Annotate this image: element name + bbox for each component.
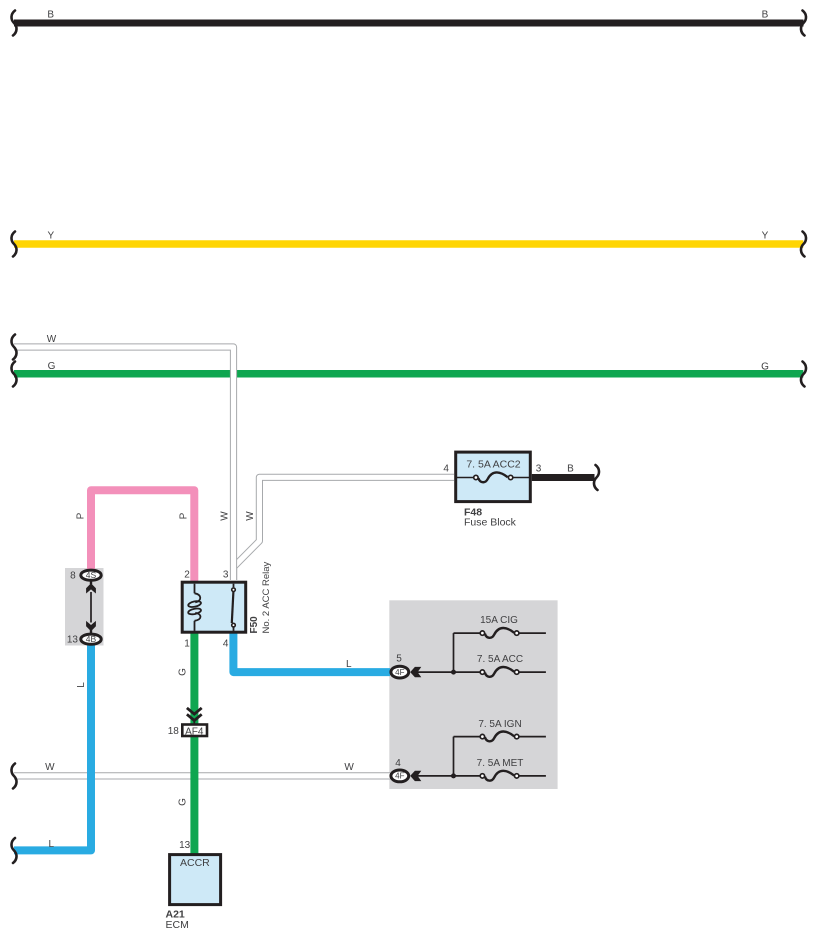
fuse row 15A CIG <box>454 628 546 638</box>
arrow link line <box>90 592 92 623</box>
fuse row 7.5A ACC <box>418 667 546 677</box>
double chevron above AF4 <box>187 708 202 724</box>
wire W bottom (to lower 4F) <box>14 772 390 779</box>
connector gray box (4S/4B shield) <box>65 568 104 646</box>
svg-text:18: 18 <box>168 726 180 737</box>
svg-text:13: 13 <box>67 635 79 646</box>
fuse row 7.5A MET <box>418 771 546 781</box>
break symbol B right <box>801 11 806 36</box>
svg-text:7. 5A ACC2: 7. 5A ACC2 <box>466 459 520 471</box>
arrow 4F upper <box>410 667 421 677</box>
wire P (pink) <box>91 490 194 581</box>
svg-text:No. 2 ACC Relay: No. 2 ACC Relay <box>261 561 272 633</box>
svg-text:G: G <box>178 798 189 806</box>
junction dot MET <box>451 773 456 778</box>
svg-text:P: P <box>76 512 87 519</box>
svg-text:4B: 4B <box>86 634 97 644</box>
break symbol Y right <box>801 232 806 257</box>
svg-text:P: P <box>179 512 190 519</box>
fuse panel gray box <box>389 600 557 789</box>
arrow 4F lower <box>410 771 421 781</box>
svg-text:L: L <box>346 659 352 670</box>
svg-text:Y: Y <box>762 231 769 242</box>
svg-text:5: 5 <box>396 654 402 665</box>
riser IGN/MET <box>453 737 455 776</box>
svg-text:G: G <box>178 668 189 676</box>
fuse 7.5A ACC2 symbol <box>456 472 531 482</box>
svg-text:G: G <box>761 362 769 373</box>
svg-text:ECM: ECM <box>166 919 189 931</box>
svg-text:W: W <box>220 511 231 521</box>
svg-text:3: 3 <box>223 570 229 581</box>
svg-text:4S: 4S <box>86 570 97 580</box>
svg-text:4F: 4F <box>395 668 404 677</box>
break symbol B after F48 <box>594 465 599 490</box>
wire B from F48 pin3 <box>532 474 595 481</box>
riser CIG/ACC <box>453 633 455 672</box>
svg-text:W: W <box>245 511 256 521</box>
break symbol L bottom left <box>11 838 16 863</box>
svg-text:Fuse Block: Fuse Block <box>464 517 517 529</box>
svg-text:L: L <box>49 839 55 850</box>
svg-text:3: 3 <box>536 464 542 475</box>
svg-text:7. 5A IGN: 7. 5A IGN <box>478 719 521 730</box>
wire B top rail <box>14 20 804 27</box>
svg-text:13: 13 <box>179 840 191 851</box>
wire Y rail <box>14 240 803 248</box>
break symbol G left <box>11 362 16 387</box>
svg-text:2: 2 <box>184 570 190 581</box>
svg-text:4F: 4F <box>395 772 404 781</box>
svg-text:15A CIG: 15A CIG <box>480 615 518 626</box>
fuse row 7.5A IGN <box>454 731 546 741</box>
connector 4F upper oval <box>391 666 409 678</box>
svg-text:G: G <box>48 361 56 372</box>
svg-text:B: B <box>567 464 574 475</box>
svg-text:W: W <box>45 762 55 773</box>
break symbol W bottom left <box>11 764 16 789</box>
wire W from left rail to relay pin 3 <box>14 347 234 580</box>
break symbol B left <box>11 11 16 36</box>
connector 4S oval <box>81 570 101 580</box>
svg-text:AF4: AF4 <box>185 726 204 737</box>
junction dot ACC <box>451 670 456 675</box>
break symbol Y left <box>11 232 16 257</box>
svg-text:7. 5A ACC: 7. 5A ACC <box>477 654 523 665</box>
wire W from fuse F48 pin4 to relay pin 3 <box>234 477 454 580</box>
ECM box A21 <box>170 855 221 905</box>
break symbol G right <box>801 362 806 387</box>
relay F50 box <box>182 582 246 632</box>
connector 4F lower oval <box>391 770 409 782</box>
svg-text:L: L <box>76 682 87 688</box>
relay switch <box>232 584 236 631</box>
wire G relay pin1 to AF4 <box>190 632 198 724</box>
wire L relay pin4 to 4F <box>233 632 390 672</box>
svg-text:7. 5A MET: 7. 5A MET <box>477 758 524 769</box>
svg-text:W: W <box>47 334 57 345</box>
arrow up (below 4S) <box>90 581 92 584</box>
arrow down (above 4B) <box>90 630 92 633</box>
svg-text:B: B <box>47 10 54 21</box>
svg-text:F50: F50 <box>249 616 260 634</box>
fuse block F48 box <box>456 452 531 502</box>
svg-text:8: 8 <box>70 571 76 582</box>
svg-text:4: 4 <box>223 639 229 650</box>
connector 4B oval <box>81 634 101 644</box>
wire L from 4B down-left <box>14 645 91 851</box>
break symbol W left <box>11 335 16 360</box>
svg-text:1: 1 <box>184 639 190 650</box>
svg-text:ACCR: ACCR <box>180 857 210 869</box>
wire G AF4 to ECM <box>190 737 198 854</box>
AF4 junction box <box>182 725 207 737</box>
svg-text:4: 4 <box>443 464 449 475</box>
svg-text:4: 4 <box>395 758 401 769</box>
relay coil <box>188 584 202 631</box>
svg-text:B: B <box>762 10 769 21</box>
svg-text:W: W <box>344 762 354 773</box>
svg-text:Y: Y <box>47 231 54 242</box>
wire G rail <box>14 370 803 378</box>
